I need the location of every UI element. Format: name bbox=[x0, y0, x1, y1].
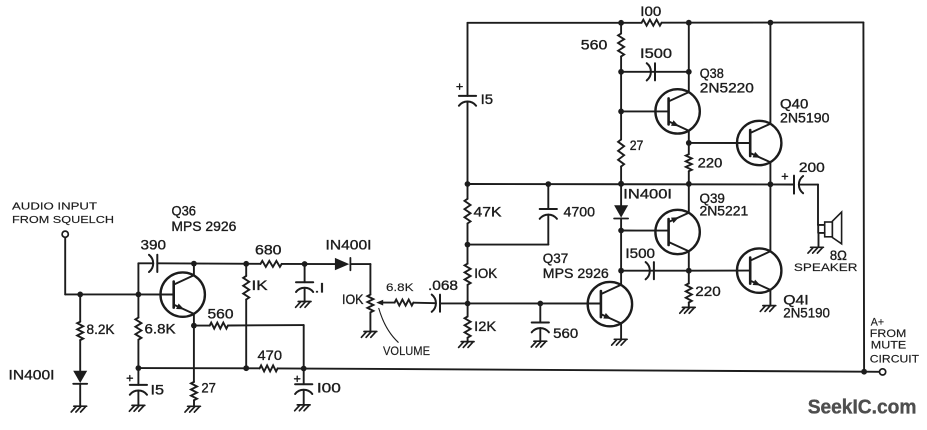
wire D1 to ground bbox=[79, 384, 81, 406]
node 680/.1 junction bbox=[302, 261, 308, 267]
wire 560 to rail elbow bbox=[228, 324, 304, 326]
wire Q38 collector up bbox=[688, 23, 690, 92]
svg-text:47K: 47K bbox=[474, 204, 502, 219]
wire 8.2K top bbox=[79, 294, 81, 321]
svg-text:MPS 2926: MPS 2926 bbox=[171, 219, 236, 234]
wire feedback line 184 bbox=[468, 183, 795, 186]
wire 1500b line bbox=[621, 270, 689, 272]
svg-text:IK: IK bbox=[252, 278, 268, 293]
wire 200 to speaker elbow bbox=[799, 184, 818, 186]
volume leader line bbox=[379, 308, 398, 342]
resistor 100 bbox=[642, 20, 662, 26]
svg-text:VOLUME: VOLUME bbox=[383, 346, 430, 358]
node 1500 left junction bbox=[618, 69, 624, 75]
wire 100 lower top bbox=[303, 369, 305, 385]
capacitor 15 upper bbox=[459, 95, 476, 97]
node diode/184 junction bbox=[618, 181, 624, 187]
capacitor .1 bbox=[296, 281, 313, 283]
transistor Q38 bbox=[655, 89, 699, 133]
wire 4700 top bbox=[547, 184, 549, 209]
node top rail Q38 bbox=[686, 20, 692, 26]
resistor 680 bbox=[261, 261, 282, 267]
svg-text:2N5220: 2N5220 bbox=[700, 80, 754, 95]
svg-text:.068: .068 bbox=[428, 278, 458, 293]
transistor Q37 bbox=[588, 282, 632, 326]
wire speaker top stub bbox=[818, 224, 825, 226]
capacitor 200 bbox=[799, 176, 803, 193]
svg-text:.I: .I bbox=[315, 281, 325, 296]
svg-text:470: 470 bbox=[258, 348, 283, 363]
ground below 12K bbox=[461, 341, 474, 343]
node 1K top junction bbox=[243, 261, 249, 267]
wire 680 to diode D2 bbox=[282, 263, 335, 265]
wire D2 to pot bbox=[350, 263, 370, 265]
wire Q41 base bbox=[689, 270, 750, 272]
node rail/6.8K junction bbox=[136, 365, 142, 371]
wire diode top lead bbox=[620, 184, 622, 206]
resistor 560 emitter bbox=[210, 323, 228, 329]
wire Q37 base line bbox=[440, 302, 601, 304]
wire 220b bottom bbox=[688, 303, 690, 307]
wire 12K to ground bbox=[467, 338, 469, 342]
svg-text:FROM SQUELCH: FROM SQUELCH bbox=[12, 214, 114, 226]
wire 390 branch up bbox=[137, 263, 139, 294]
wire emitter to 560 bbox=[194, 325, 210, 327]
svg-text:560: 560 bbox=[581, 38, 608, 53]
node rail/100 junction bbox=[301, 366, 307, 372]
wire collector line 263 bbox=[157, 262, 260, 265]
svg-text:390: 390 bbox=[141, 238, 167, 253]
node Q39 base junction bbox=[618, 228, 624, 234]
node 560 cap junction bbox=[537, 301, 543, 307]
capacitor 15 lower bbox=[130, 384, 147, 386]
wire 8.2K to diode bbox=[79, 340, 81, 371]
wire Q41 collector up bbox=[769, 184, 771, 251]
node top rail Q40 bbox=[768, 20, 774, 26]
wire speaker bottom stub bbox=[819, 232, 825, 234]
svg-text:FROM: FROM bbox=[870, 328, 907, 340]
svg-text:6.8K: 6.8K bbox=[145, 322, 176, 337]
ground below 15 lower bbox=[132, 404, 145, 406]
svg-text:I5: I5 bbox=[151, 382, 165, 397]
resistor 1K bbox=[243, 276, 249, 300]
wire chain 71-111 bbox=[620, 72, 622, 112]
wire 6.8K to .068 bbox=[413, 302, 436, 305]
node input/8.2K junction bbox=[77, 292, 83, 298]
ground below 220b bbox=[682, 306, 695, 308]
ground below .1 bbox=[298, 301, 311, 303]
node Q39 collector junction bbox=[686, 268, 692, 274]
node 47K top junction bbox=[465, 181, 471, 187]
resistor 27 chain bbox=[618, 140, 624, 167]
capacitor 100 lower bbox=[295, 383, 312, 385]
resistor 220 Q39 bbox=[686, 283, 692, 302]
wire Q39 base bbox=[621, 230, 669, 232]
ground below D1 bbox=[74, 405, 87, 407]
diode D1 1N4001 bbox=[73, 371, 87, 383]
wire 10K to base junction bbox=[467, 285, 469, 304]
diode D3 1N4001 bbox=[614, 205, 628, 217]
wire right rail bbox=[862, 22, 865, 371]
svg-text:AUDIO INPUT: AUDIO INPUT bbox=[12, 201, 98, 213]
svg-text:Q38: Q38 bbox=[700, 66, 724, 81]
svg-text:I00: I00 bbox=[640, 4, 661, 19]
svg-text:I2K: I2K bbox=[474, 319, 496, 334]
wire 560 top lead bbox=[620, 23, 622, 34]
capacitor 560 bypass bbox=[532, 322, 549, 324]
svg-text:I00: I00 bbox=[317, 380, 341, 395]
svg-text:560: 560 bbox=[208, 306, 234, 321]
resistor 47K bbox=[465, 199, 471, 224]
capacitor 390 bbox=[149, 255, 153, 272]
wire 27 to ground bbox=[193, 400, 195, 406]
svg-text:IOK: IOK bbox=[342, 292, 364, 307]
svg-text:27: 27 bbox=[630, 138, 644, 153]
wire Q37 emitter down bbox=[620, 323, 622, 338]
ground below 100 lower bbox=[297, 404, 310, 406]
capacitor 1500 lower bbox=[646, 262, 650, 279]
resistor 27 emitter bbox=[191, 382, 197, 400]
diode D2 1N4001 bbox=[335, 258, 349, 270]
svg-text:IN400I: IN400I bbox=[9, 367, 55, 382]
transistor Q39 bbox=[655, 210, 699, 254]
resistor 220 Q38 bbox=[686, 154, 692, 171]
capacitor .068 bbox=[432, 295, 436, 312]
wire 1K to bottom rail bbox=[245, 300, 247, 369]
svg-text:2N5190: 2N5190 bbox=[780, 111, 830, 126]
wire 15 lower to ground bbox=[137, 391, 139, 406]
wire Q38 emitter down bbox=[688, 131, 690, 143]
wire 560cap to ground bbox=[539, 328, 541, 341]
wire 27 to 184 line bbox=[620, 167, 622, 184]
ground below pot bbox=[364, 331, 377, 333]
wire base junction to 12K bbox=[467, 304, 469, 317]
node output junction bbox=[768, 181, 774, 187]
wire speaker stub join bbox=[817, 225, 819, 233]
node A+ terminal bbox=[880, 369, 886, 375]
svg-text:560: 560 bbox=[553, 326, 578, 341]
wire 220a top bbox=[688, 143, 690, 154]
ground below Q41 bbox=[763, 305, 776, 307]
ground below 27 bbox=[188, 405, 201, 407]
transistor Q36 bbox=[161, 272, 205, 316]
resistor 12K bbox=[465, 317, 471, 338]
svg-text:IN400I: IN400I bbox=[326, 237, 372, 252]
wire chain 230-270 bbox=[620, 231, 622, 271]
node rail/1K junction bbox=[243, 365, 249, 371]
wire wiper to 6.8K bbox=[383, 302, 394, 304]
wire Q39 emitter up bbox=[688, 184, 690, 213]
resistor 8.2K bbox=[77, 322, 83, 340]
svg-text:Q36: Q36 bbox=[172, 203, 197, 218]
wire top rail right bbox=[662, 21, 864, 23]
wire Q36 collector up bbox=[193, 264, 195, 276]
wire 15 lower top bbox=[137, 368, 139, 385]
svg-text:Q37: Q37 bbox=[543, 251, 569, 266]
wire 15 to 47K junction bbox=[467, 102, 469, 199]
wire 560 to 1500 junction bbox=[620, 56, 622, 71]
wire .1 top bbox=[304, 264, 306, 282]
wire Q36 emitter down bbox=[193, 314, 195, 326]
svg-text:200: 200 bbox=[799, 160, 825, 175]
wire Q40 emitter down bbox=[769, 162, 771, 184]
wire bottom rail right bbox=[278, 368, 865, 371]
svg-text:2N5190: 2N5190 bbox=[783, 305, 830, 320]
svg-text:MUTE: MUTE bbox=[871, 340, 907, 352]
node 47K/4700 junction bbox=[465, 242, 471, 248]
svg-text:CIRCUIT: CIRCUIT bbox=[870, 353, 920, 365]
wire 220a bottom bbox=[688, 171, 690, 184]
node input/6.8K junction bbox=[136, 292, 142, 298]
wire Q38 emitter to Q40 base bbox=[689, 142, 750, 144]
wire Q38 base bbox=[621, 110, 669, 112]
svg-text:IN400I: IN400I bbox=[623, 187, 672, 202]
wire 6.8K to bottom rail bbox=[137, 340, 139, 368]
svg-text:I500: I500 bbox=[625, 246, 655, 261]
capacitor 4700 bbox=[540, 208, 557, 210]
node 1500b left junction bbox=[618, 268, 624, 274]
wire Q37 collector up bbox=[620, 271, 622, 285]
svg-text:SeekIC.com: SeekIC.com bbox=[808, 397, 917, 419]
ground below 560 cap bbox=[534, 340, 547, 342]
node 1500 right junction bbox=[686, 69, 692, 75]
svg-text:680: 680 bbox=[255, 242, 282, 257]
node Q36 emitter junction bbox=[191, 323, 197, 329]
wire emitter to 27 bbox=[193, 326, 195, 382]
svg-text:8.2K: 8.2K bbox=[87, 322, 115, 337]
wire Q39 collector down bbox=[688, 251, 690, 270]
transistor Q40 bbox=[737, 121, 781, 165]
svg-text:MPS 2926: MPS 2926 bbox=[543, 266, 609, 281]
node Q38 emitter junction bbox=[686, 140, 692, 146]
svg-text:6.8K: 6.8K bbox=[386, 282, 414, 294]
wire 1K top lead bbox=[245, 264, 247, 276]
wire chain 111-139 bbox=[620, 111, 622, 139]
wire 1500 line bbox=[621, 71, 689, 73]
wire 47K to 10K bbox=[467, 224, 469, 264]
speaker bbox=[825, 222, 833, 237]
potentiometer 10K bbox=[367, 295, 373, 313]
resistor 6.8K bbox=[135, 318, 141, 340]
resistor 470 bbox=[260, 365, 278, 371]
capacitor 1500 upper bbox=[647, 63, 651, 80]
wire input drop bbox=[64, 237, 66, 294]
node Q38 base junction bbox=[618, 109, 624, 115]
wire 4700 bottom elbow bbox=[547, 215, 549, 245]
node 4700 top junction bbox=[545, 181, 551, 187]
wire 100 lower to ground bbox=[303, 390, 305, 405]
node 10K/12K junction bbox=[465, 301, 471, 307]
transistor Q41 bbox=[737, 248, 781, 292]
svg-text:SPEAKER: SPEAKER bbox=[794, 262, 858, 274]
wire 6.8K top bbox=[137, 294, 139, 317]
svg-text:I5: I5 bbox=[481, 92, 494, 107]
svg-text:Q40: Q40 bbox=[780, 96, 808, 111]
node: audio input terminal bbox=[62, 231, 68, 237]
svg-text:220: 220 bbox=[698, 156, 723, 171]
wire top rail left bbox=[468, 22, 642, 24]
ground below speaker bbox=[811, 246, 824, 248]
svg-text:2N5221: 2N5221 bbox=[700, 204, 749, 219]
node Q36 collector junction bbox=[191, 261, 197, 267]
svg-text:27: 27 bbox=[201, 380, 216, 395]
ground below Q37 bbox=[614, 338, 627, 340]
wire bottom rail left bbox=[138, 367, 259, 369]
node rail/A+ junction bbox=[861, 369, 867, 375]
node 220a bottom junction bbox=[686, 181, 692, 187]
node diode top junction bbox=[618, 181, 624, 187]
wire top-left vertical bbox=[467, 23, 469, 96]
svg-text:IOK: IOK bbox=[474, 266, 497, 281]
wire 220b top bbox=[688, 271, 690, 284]
resistor 560 chain bbox=[618, 34, 624, 57]
node top rail 560 bbox=[618, 20, 624, 26]
wire diode to Q39 base junction bbox=[620, 219, 622, 231]
wire Q40 collector up bbox=[769, 23, 771, 124]
resistor 6.8K volume bbox=[395, 300, 414, 306]
wire Q41 emitter down bbox=[769, 290, 771, 305]
wire Q36 base rail bbox=[65, 293, 173, 295]
wire A+ stub bbox=[864, 371, 879, 373]
svg-text:220: 220 bbox=[695, 284, 720, 299]
pot wiper arrow bbox=[376, 300, 383, 306]
wire 560cap top bbox=[539, 304, 541, 323]
resistor 10K bbox=[465, 264, 471, 285]
svg-text:A+: A+ bbox=[871, 316, 884, 328]
svg-text:I500: I500 bbox=[640, 46, 672, 61]
svg-text:4700: 4700 bbox=[564, 204, 596, 219]
wire pot to ground bbox=[369, 312, 371, 331]
wire .1 to ground bbox=[304, 288, 306, 301]
